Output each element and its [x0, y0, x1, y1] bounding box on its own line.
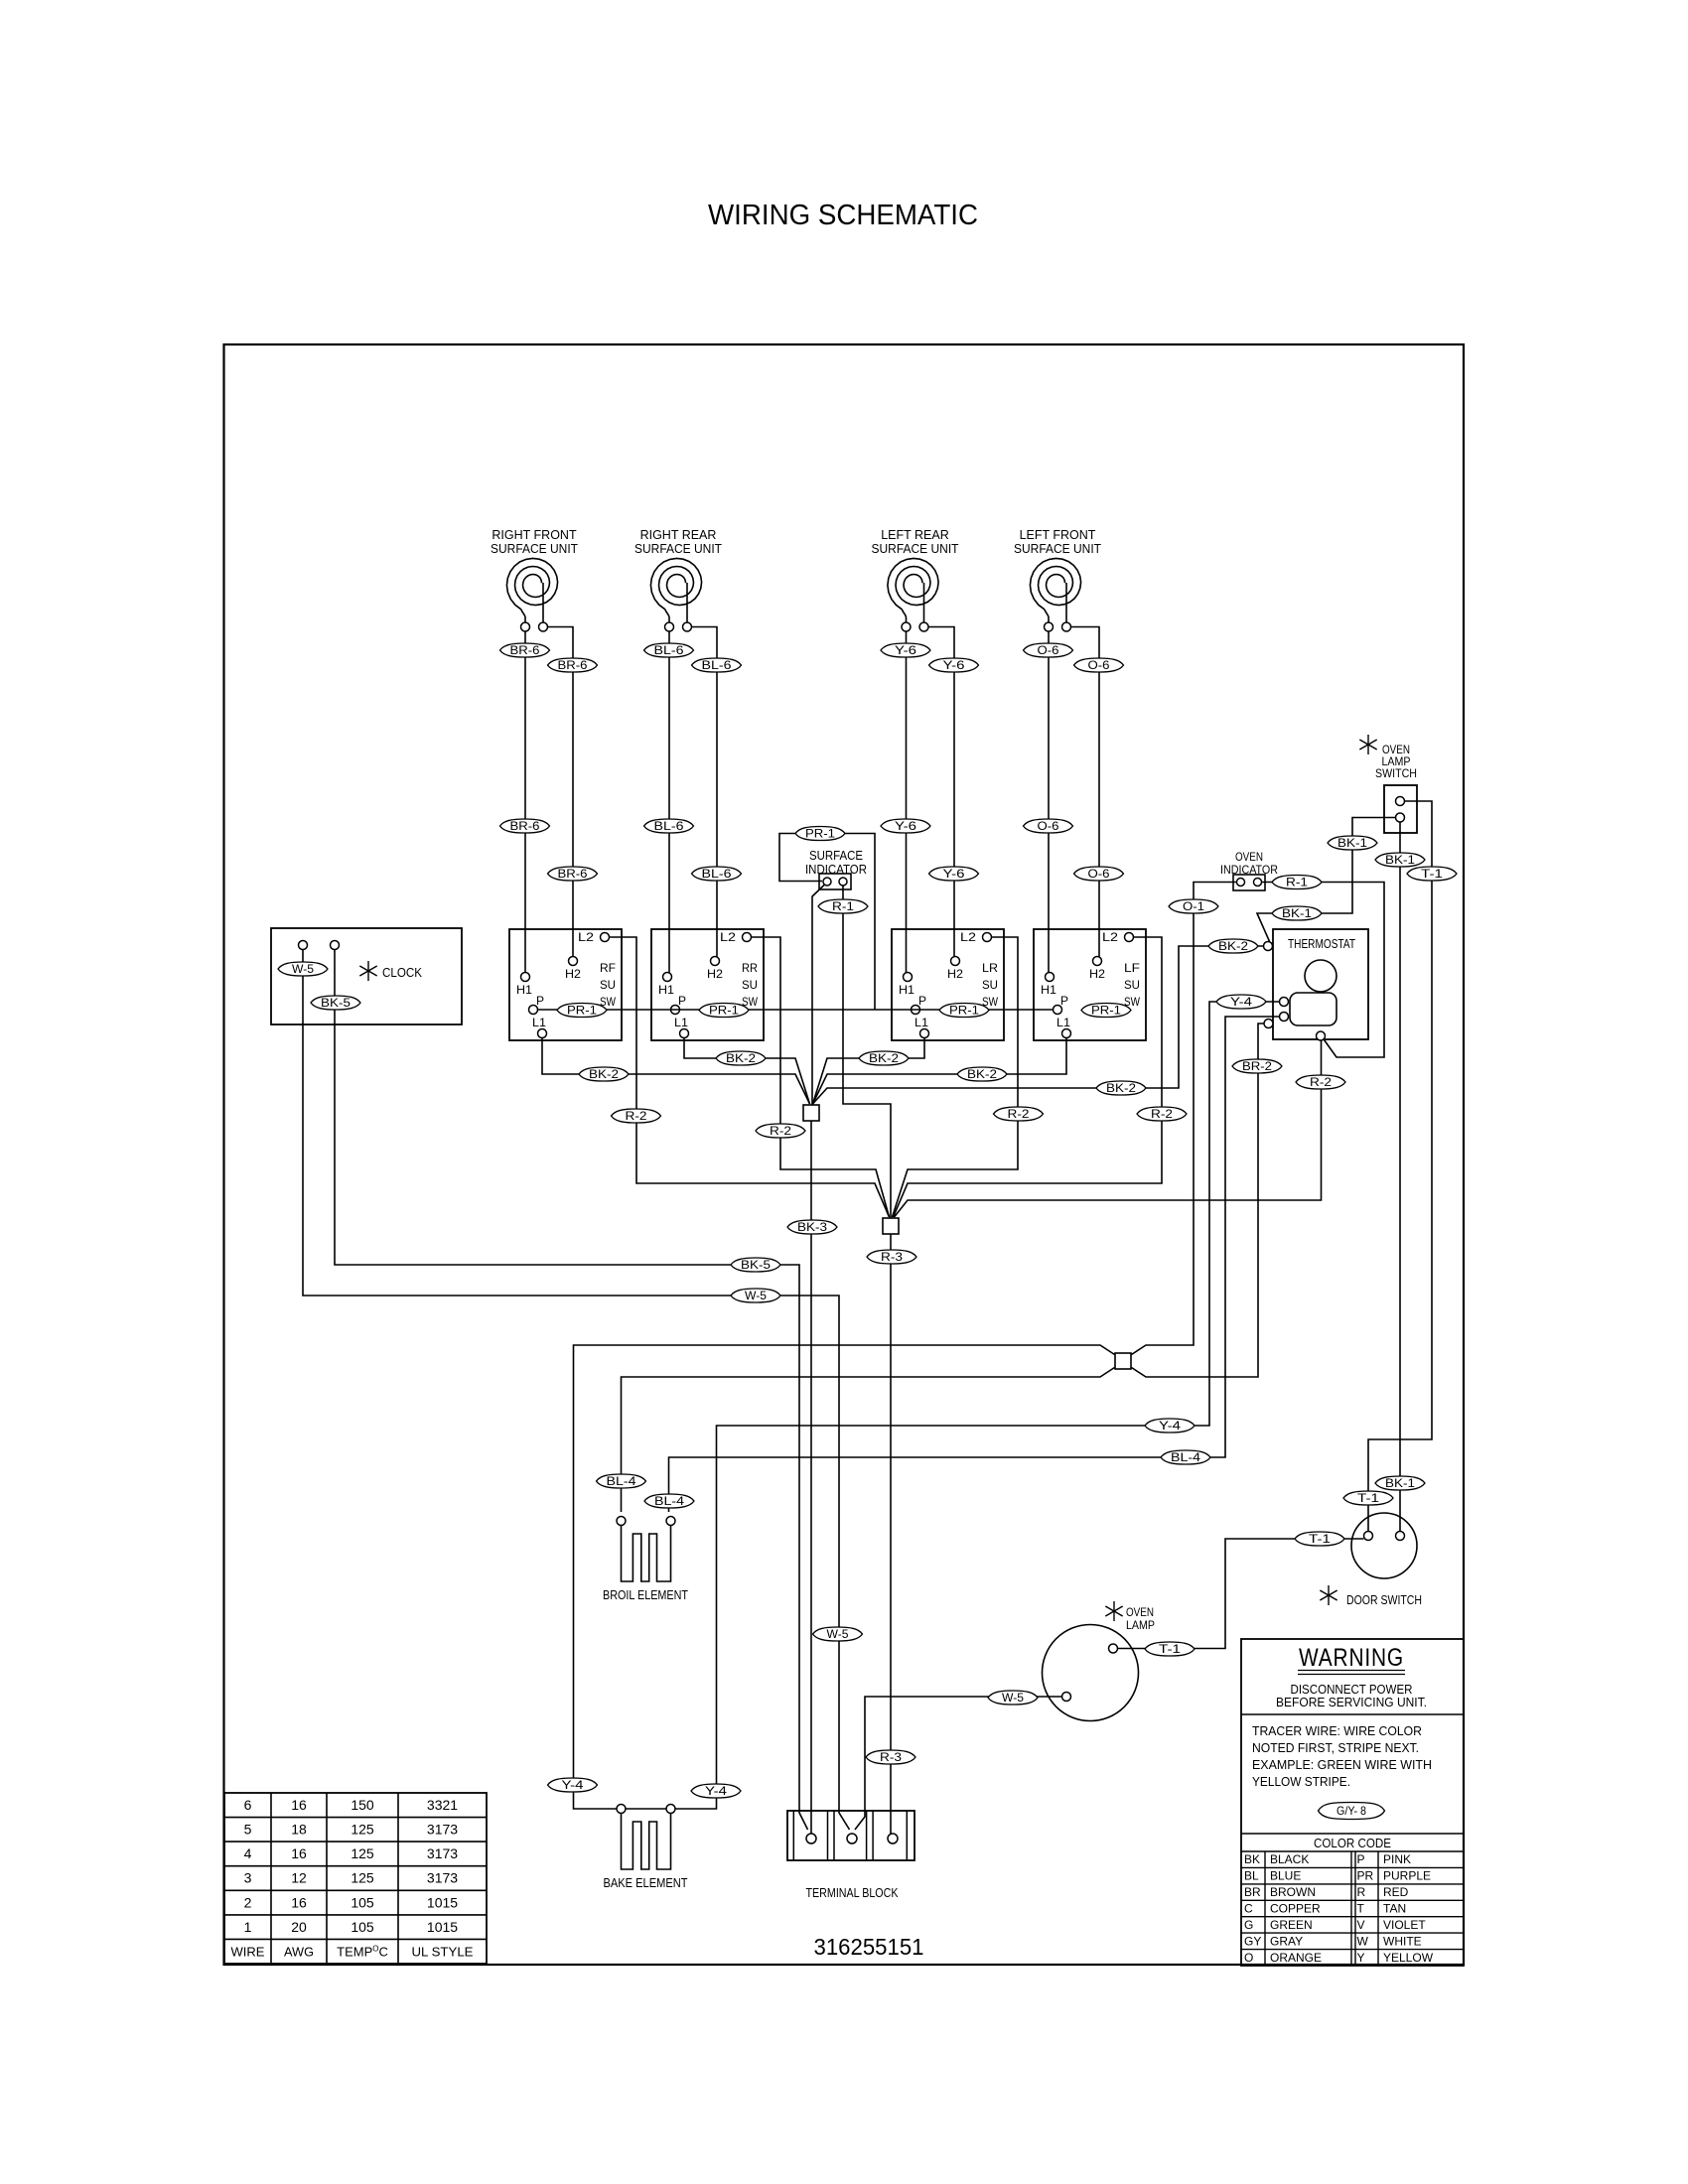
wire table row 4 16 125 3173 — [244, 1845, 459, 1861]
svg-text:12: 12 — [291, 1870, 307, 1886]
bake element terminals — [617, 1805, 675, 1814]
label oval R-2 below thermostat — [1296, 1075, 1345, 1089]
switch box LF SU SW — [1034, 929, 1146, 1040]
svg-text:BEFORE SERVICING UNIT.: BEFORE SERVICING UNIT. — [1276, 1696, 1427, 1709]
wire PR-1 chain linking P terminals of all switch boxes — [538, 1009, 1054, 1011]
label oval BK-2 on RR L1 wire — [716, 1051, 766, 1065]
svg-text:3173: 3173 — [427, 1845, 458, 1861]
svg-text:16: 16 — [291, 1894, 307, 1910]
label oval PR-1 at surface indicator — [795, 827, 845, 841]
svg-text:H1: H1 — [658, 983, 674, 997]
wire BK-3 from junction J1 down to terminal block — [810, 1121, 812, 1834]
oven lamp terminals — [1062, 1644, 1118, 1702]
label oval W-5 at oven lamp — [988, 1691, 1038, 1705]
oven lamp switch box — [1384, 785, 1417, 833]
terminal P of LF — [1054, 1006, 1062, 1015]
svg-text:150: 150 — [351, 1797, 374, 1813]
wire T-1 from oven lamp to door switch — [1118, 1539, 1364, 1649]
asterisk at clock — [359, 961, 376, 981]
label oval R-3 near terminal block — [866, 1750, 915, 1764]
warning box — [1241, 1639, 1464, 1966]
wire Y-6 left lead down to H1 — [906, 631, 908, 973]
color code row BK BLACK / P PINK — [1244, 1852, 1411, 1866]
wire R-2 from LF L2 to junction J2 — [894, 937, 1163, 1217]
clock terminals — [299, 941, 340, 950]
wire BL-4 from thermostat to broil element right terminal — [669, 1017, 1280, 1512]
svg-text:O-6: O-6 — [1038, 645, 1059, 657]
label oval O-6 left upper — [1024, 643, 1073, 657]
svg-text:3321: 3321 — [427, 1797, 458, 1813]
wire BL-4 from bowtie J3 to broil element left terminal — [622, 1368, 1115, 1513]
wire BK-2 from LF L1 to junction J1 — [813, 1038, 1067, 1105]
svg-text:105: 105 — [351, 1894, 374, 1910]
wire T-1 from lamp switch to door switch left terminal — [1368, 801, 1432, 1532]
thermostat body — [1290, 993, 1336, 1025]
svg-text:GRAY: GRAY — [1270, 1934, 1303, 1948]
svg-text:DOOR SWITCH: DOOR SWITCH — [1346, 1593, 1422, 1607]
label oval Y-4 above bake element right — [691, 1784, 741, 1798]
asterisk at oven lamp switch — [1359, 735, 1376, 754]
door switch circle — [1351, 1513, 1417, 1578]
svg-text:BLUE: BLUE — [1270, 1869, 1301, 1883]
label oval O-1 — [1169, 899, 1218, 913]
svg-text:H1: H1 — [899, 983, 914, 997]
wire BL-6 right lead jog down to H2 — [692, 627, 718, 957]
svg-text:BL: BL — [1244, 1869, 1259, 1883]
svg-text:C: C — [1244, 1902, 1253, 1916]
svg-text:L1: L1 — [914, 1016, 928, 1029]
terminal H1 of LR — [904, 973, 913, 982]
svg-text:BK-1: BK-1 — [1385, 1478, 1415, 1490]
svg-text:16: 16 — [291, 1797, 307, 1813]
wire table row 5 18 125 3173 — [244, 1822, 459, 1838]
svg-text:R-3: R-3 — [881, 1252, 903, 1264]
svg-text:BK-2: BK-2 — [869, 1053, 899, 1065]
svg-text:YELLOW: YELLOW — [1383, 1951, 1434, 1965]
svg-text:TEMPOC: TEMPOC — [337, 1944, 388, 1959]
svg-text:1: 1 — [244, 1919, 252, 1935]
label oval R-2 on LR L2 wire — [994, 1107, 1044, 1121]
wire BR-6 left lead down to H1 — [524, 631, 526, 973]
wire PR-1 to surface indicator and down to P chain — [779, 834, 875, 1011]
label oval BK-5 at clock — [311, 996, 360, 1010]
label oval BL-4 on horizontal run — [1161, 1450, 1210, 1464]
svg-text:R-3: R-3 — [880, 1752, 902, 1764]
wire table row 3 12 125 3173 — [244, 1870, 459, 1886]
wire W-5 from oven lamp to terminal block — [855, 1697, 1062, 1830]
svg-text:PR-1: PR-1 — [949, 1006, 979, 1018]
svg-text:INDICATOR: INDICATOR — [805, 863, 867, 877]
surface indicator box — [819, 874, 851, 889]
svg-text:TERMINAL BLOCK: TERMINAL BLOCK — [806, 1885, 899, 1900]
surface indicator label — [805, 849, 867, 877]
svg-text:SU: SU — [1124, 978, 1140, 992]
svg-text:TRACER WIRE: WIRE COLOR: TRACER WIRE: WIRE COLOR — [1252, 1724, 1422, 1738]
wire Y-4 from thermostat to bake element — [626, 1002, 1280, 1809]
wire W-5 from clock down and right to terminal block — [303, 950, 850, 1831]
svg-text:4: 4 — [244, 1845, 252, 1861]
oven lamp label — [1126, 1605, 1155, 1632]
svg-text:R-2: R-2 — [1151, 1109, 1173, 1121]
label oval BR-6 right lower — [548, 867, 598, 881]
label oval BK-2 on LF L1 wire — [957, 1067, 1007, 1081]
svg-text:R-1: R-1 — [1286, 878, 1308, 889]
wire BK-2 from RF L1 to junction J1 — [542, 1038, 810, 1105]
label oval O-6 right lower — [1074, 867, 1124, 881]
svg-text:BR-6: BR-6 — [558, 660, 588, 672]
svg-text:BK: BK — [1244, 1852, 1260, 1866]
svg-text:O-6: O-6 — [1088, 660, 1110, 672]
label oval R-3 below junction J2 — [867, 1250, 916, 1264]
svg-text:6: 6 — [244, 1797, 252, 1813]
svg-text:BROWN: BROWN — [1270, 1885, 1316, 1899]
wire R-3 from junction J2 down to terminal block — [890, 1234, 892, 1834]
wire table row 1 20 105 1015 — [244, 1919, 459, 1935]
svg-text:BK-5: BK-5 — [321, 998, 351, 1010]
door switch terminals — [1364, 1532, 1405, 1541]
svg-text:R-1: R-1 — [832, 901, 854, 913]
svg-text:W: W — [1357, 1934, 1369, 1948]
svg-text:G/Y- 8: G/Y- 8 — [1336, 1804, 1366, 1818]
svg-text:L2: L2 — [720, 930, 736, 944]
wire BL-6 left lead down to H1 — [668, 631, 670, 973]
wire Y-6 right lead jog down to H2 — [928, 627, 954, 957]
svg-text:Y-4: Y-4 — [1230, 997, 1253, 1009]
svg-text:OVEN: OVEN — [1235, 850, 1263, 864]
svg-text:BR: BR — [1244, 1885, 1261, 1899]
svg-text:H2: H2 — [707, 967, 723, 981]
thermostat sensor circle — [1305, 960, 1336, 992]
svg-text:BK-1: BK-1 — [1282, 908, 1312, 920]
terminal L1 of RF — [538, 1029, 547, 1038]
svg-text:RIGHT FRONT: RIGHT FRONT — [492, 528, 577, 542]
terminal H2 of LF — [1093, 957, 1102, 966]
surface unit coil RIGHT FRONT — [491, 528, 578, 631]
wire BK-2 from RR L1 to junction J1 — [684, 1038, 810, 1105]
svg-text:VIOLET: VIOLET — [1383, 1918, 1426, 1932]
svg-text:BR-6: BR-6 — [558, 869, 588, 881]
svg-text:L1: L1 — [532, 1016, 546, 1029]
label oval O-6 right upper — [1074, 658, 1124, 672]
label oval R-2 on RF L2 wire — [612, 1109, 661, 1123]
oven lamp circle — [1043, 1625, 1139, 1721]
svg-text:Y-4: Y-4 — [705, 1786, 728, 1798]
label oval PR-1 in LR box — [939, 1004, 989, 1018]
svg-text:BK-2: BK-2 — [1218, 941, 1248, 953]
terminal P of RR — [671, 1006, 680, 1015]
svg-text:L2: L2 — [1102, 930, 1118, 944]
tracer wire note text — [1252, 1724, 1432, 1789]
svg-text:RIGHT REAR: RIGHT REAR — [640, 528, 717, 542]
svg-text:Y: Y — [1357, 1951, 1365, 1965]
svg-text:PR: PR — [1357, 1869, 1374, 1883]
wire R-1 from surface indicator right terminal to junction J2 — [843, 887, 891, 1219]
label oval Y-6 right upper — [929, 658, 979, 672]
svg-text:O-6: O-6 — [1088, 869, 1110, 881]
wire table row 2 16 105 1015 — [244, 1894, 459, 1910]
label oval R-1 right of oven indicator — [1272, 876, 1322, 889]
surface unit coil RIGHT REAR — [634, 528, 722, 631]
wire O-6 left lead down to H1 — [1048, 631, 1050, 973]
label oval PR-1 in RR box — [699, 1004, 749, 1018]
terminal L2 of RR — [743, 933, 752, 942]
svg-text:R-2: R-2 — [626, 1111, 647, 1123]
terminal L1 of LR — [920, 1029, 929, 1038]
label oval BR-6 right upper — [548, 658, 598, 672]
svg-text:H1: H1 — [516, 983, 532, 997]
wire BK-2 from thermostat to junction J1 — [813, 946, 1264, 1104]
svg-text:UL STYLE: UL STYLE — [412, 1944, 474, 1959]
svg-text:125: 125 — [351, 1822, 374, 1838]
terminal L2 of RF — [601, 933, 610, 942]
terminal H2 of RF — [569, 957, 578, 966]
svg-text:SU: SU — [982, 978, 998, 992]
label oval T-1 left of door switch — [1295, 1532, 1344, 1546]
svg-text:PURPLE: PURPLE — [1383, 1869, 1431, 1883]
svg-text:3173: 3173 — [427, 1870, 458, 1886]
svg-text:W-5: W-5 — [292, 964, 314, 976]
svg-text:TAN: TAN — [1383, 1902, 1406, 1916]
svg-text:1015: 1015 — [427, 1894, 458, 1910]
terminal L1 of RR — [680, 1029, 689, 1038]
svg-text:SURFACE: SURFACE — [809, 849, 863, 863]
svg-text:1015: 1015 — [427, 1919, 458, 1935]
svg-text:GREEN: GREEN — [1270, 1918, 1313, 1932]
svg-text:YELLOW STRIPE.: YELLOW STRIPE. — [1252, 1775, 1350, 1789]
svg-text:P: P — [1357, 1852, 1365, 1866]
svg-text:DISCONNECT POWER: DISCONNECT POWER — [1291, 1683, 1413, 1697]
svg-text:H2: H2 — [947, 967, 963, 981]
svg-text:125: 125 — [351, 1870, 374, 1886]
svg-text:105: 105 — [351, 1919, 374, 1935]
wire R-2 from thermostat bottom to junction J2 — [895, 1040, 1322, 1217]
svg-text:Y-6: Y-6 — [895, 821, 916, 833]
svg-text:2: 2 — [244, 1894, 252, 1910]
color code row GY GRAY / W WHITE — [1244, 1934, 1422, 1948]
svg-text:PINK: PINK — [1383, 1852, 1411, 1866]
svg-text:R-2: R-2 — [1008, 1109, 1030, 1121]
svg-text:T-1: T-1 — [1159, 1644, 1181, 1656]
terminal H1 of LF — [1046, 973, 1055, 982]
oven indicator label — [1220, 850, 1278, 877]
svg-text:W-5: W-5 — [745, 1291, 767, 1302]
label oval R-2 on LF L2 wire — [1137, 1107, 1187, 1121]
svg-text:THERMOSTAT: THERMOSTAT — [1288, 937, 1355, 951]
svg-text:BK-2: BK-2 — [1106, 1083, 1136, 1095]
label oval BL-6 left upper — [644, 643, 694, 657]
svg-text:RF: RF — [600, 961, 616, 975]
svg-text:BR-6: BR-6 — [510, 821, 540, 833]
terminal H1 of RR — [663, 973, 672, 982]
svg-text:BL-4: BL-4 — [1171, 1452, 1201, 1464]
oven indicator terminals — [1237, 879, 1262, 887]
svg-text:BL-6: BL-6 — [702, 660, 732, 672]
svg-text:V: V — [1357, 1918, 1365, 1932]
color code table — [224, 1793, 1464, 1966]
junction J2 node — [883, 1218, 899, 1234]
svg-text:Y-6: Y-6 — [943, 869, 965, 881]
svg-text:SURFACE UNIT: SURFACE UNIT — [872, 542, 959, 556]
svg-text:SURFACE UNIT: SURFACE UNIT — [634, 542, 722, 556]
svg-text:LF: LF — [1124, 961, 1140, 975]
svg-text:ORANGE: ORANGE — [1270, 1951, 1322, 1965]
label oval BK-2 on thermostat wire — [1096, 1081, 1146, 1095]
label oval BK-5 on horizontal run — [731, 1258, 780, 1272]
svg-text:H2: H2 — [1089, 967, 1105, 981]
svg-text:GY: GY — [1244, 1934, 1261, 1948]
warning text disconnect power — [1276, 1683, 1427, 1709]
label oval O-6 left lower — [1024, 819, 1073, 833]
wire R-2 from RR L2 to junction J2 — [752, 937, 890, 1217]
svg-text:SWITCH: SWITCH — [1375, 766, 1417, 780]
svg-text:T-1: T-1 — [1309, 1534, 1331, 1546]
svg-text:BL-6: BL-6 — [654, 821, 684, 833]
wire O-6 right lead jog down to H2 — [1071, 627, 1100, 957]
svg-text:BL-4: BL-4 — [607, 1476, 637, 1488]
oven indicator box — [1233, 875, 1265, 890]
svg-text:L1: L1 — [1056, 1016, 1070, 1029]
svg-text:BK-2: BK-2 — [589, 1069, 619, 1081]
svg-text:P: P — [678, 994, 686, 1008]
wire gauge table — [224, 1793, 924, 1964]
svg-text:R-2: R-2 — [770, 1126, 791, 1138]
label oval BL-6 left lower — [644, 819, 694, 833]
svg-text:125: 125 — [351, 1845, 374, 1861]
switch box RR SU SW — [651, 929, 764, 1040]
clock box — [271, 928, 462, 1024]
svg-text:PR-1: PR-1 — [805, 829, 835, 841]
svg-text:BLACK: BLACK — [1270, 1852, 1309, 1866]
svg-text:5: 5 — [244, 1822, 252, 1838]
wire Y-4 from bowtie J3 to bake element left terminal — [574, 1345, 1115, 1809]
svg-text:Y-6: Y-6 — [943, 660, 965, 672]
svg-text:H2: H2 — [565, 967, 581, 981]
svg-text:SURFACE UNIT: SURFACE UNIT — [1014, 542, 1101, 556]
svg-text:O-6: O-6 — [1038, 821, 1059, 833]
svg-text:COPPER: COPPER — [1270, 1902, 1321, 1916]
svg-text:BK-2: BK-2 — [726, 1053, 756, 1065]
svg-text:RED: RED — [1383, 1885, 1409, 1899]
label oval Y-6 right lower — [929, 867, 979, 881]
label oval BR-6 left lower — [500, 819, 550, 833]
svg-text:18: 18 — [291, 1822, 307, 1838]
thermostat box — [1273, 929, 1368, 1039]
label oval BR-6 left upper — [500, 643, 550, 657]
label oval G/Y- 8 example — [1319, 1803, 1385, 1820]
terminal L2 of LF — [1125, 933, 1134, 942]
svg-text:16: 16 — [291, 1845, 307, 1861]
oven lamp switch terminals — [1396, 797, 1405, 823]
svg-text:T: T — [1357, 1902, 1365, 1916]
svg-text:R-2: R-2 — [1310, 1077, 1332, 1089]
surface unit coil LEFT FRONT — [1014, 528, 1101, 631]
asterisk at door switch — [1320, 1585, 1336, 1605]
svg-text:OVEN: OVEN — [1126, 1605, 1154, 1619]
surface indicator terminals — [823, 878, 847, 886]
wire table header row WIRE AWG TEMP C UL STYLE — [231, 1944, 474, 1959]
label oval BK-2 on LR L1 wire — [859, 1051, 909, 1065]
svg-text:BR-2: BR-2 — [1242, 1061, 1272, 1073]
svg-text:LEFT REAR: LEFT REAR — [881, 528, 949, 542]
svg-text:SU: SU — [742, 978, 758, 992]
svg-text:BK-3: BK-3 — [797, 1222, 827, 1234]
svg-text:T-1: T-1 — [1357, 1493, 1379, 1505]
label oval BK-3 — [787, 1220, 837, 1234]
svg-text:R: R — [1357, 1885, 1366, 1899]
svg-text:BROIL ELEMENT: BROIL ELEMENT — [603, 1587, 688, 1602]
color code header divider — [1241, 1833, 1464, 1835]
wire BK-1 from lamp switch down to door switch right terminal — [1399, 822, 1401, 1532]
label oval BK-1 below lamp switch — [1375, 853, 1425, 867]
terminal H2 of LR — [951, 957, 960, 966]
svg-text:WIRING SCHEMATIC: WIRING SCHEMATIC — [708, 200, 978, 231]
junction J3 node — [1115, 1353, 1131, 1369]
wire table row 6 16 150 3321 — [244, 1797, 459, 1813]
svg-text:AWG: AWG — [284, 1944, 314, 1959]
label oval BL-4 above broil right terminal — [644, 1494, 694, 1508]
wire BK-5 from clock down and right to terminal block — [335, 950, 808, 1831]
svg-text:P: P — [536, 994, 544, 1008]
terminal block terminals — [806, 1834, 898, 1843]
broil element — [622, 1526, 671, 1582]
svg-text:BK-1: BK-1 — [1385, 855, 1415, 867]
svg-text:P: P — [918, 994, 926, 1008]
bake element — [622, 1814, 671, 1870]
label oval Y-4 on horizontal run — [1145, 1419, 1195, 1433]
svg-text:PR-1: PR-1 — [709, 1006, 739, 1018]
label oval W-5 at clock — [278, 962, 328, 976]
label oval BK-2 on RF L1 wire — [579, 1067, 629, 1081]
svg-text:O: O — [1244, 1951, 1253, 1965]
color code row BR BROWN / R RED — [1244, 1885, 1409, 1899]
label oval BR-2 — [1232, 1059, 1282, 1073]
label oval PR-1 in LF box — [1081, 1004, 1131, 1018]
svg-text:SU: SU — [600, 978, 616, 992]
wire BK-2 from LR L1 to junction J1 — [813, 1038, 925, 1105]
svg-text:RR: RR — [742, 961, 758, 975]
label oval R-1 below surface indicator — [818, 899, 868, 913]
switch box LR SU SW — [892, 929, 1004, 1040]
wire BK-1 from lamp switch to thermostat upper terminal — [1257, 818, 1396, 943]
color code row G GREEN / V VIOLET — [1244, 1918, 1426, 1932]
svg-text:T-1: T-1 — [1421, 869, 1443, 881]
svg-text:WHITE: WHITE — [1383, 1934, 1422, 1948]
svg-text:316255151: 316255151 — [814, 1934, 924, 1960]
svg-text:BL-4: BL-4 — [654, 1496, 685, 1508]
label oval T-1 right of oven lamp — [1145, 1642, 1195, 1656]
svg-text:W-5: W-5 — [827, 1629, 849, 1641]
warning box divider — [1241, 1713, 1464, 1715]
label oval BK-1 above door switch — [1375, 1476, 1425, 1490]
label oval BL-6 right upper — [692, 658, 742, 672]
svg-text:W-5: W-5 — [1002, 1693, 1024, 1705]
svg-text:BL-6: BL-6 — [702, 869, 732, 881]
asterisk at oven lamp — [1105, 1601, 1122, 1621]
svg-text:BR-6: BR-6 — [510, 645, 540, 657]
label oval W-5 on drop to terminal block — [813, 1627, 863, 1641]
terminal H1 of RF — [521, 973, 530, 982]
svg-text:L1: L1 — [674, 1016, 688, 1029]
svg-text:CLOCK: CLOCK — [382, 966, 423, 980]
wire R-2 from RF L2 to junction J2 — [610, 937, 890, 1217]
terminal P of LR — [912, 1006, 920, 1015]
color code row O ORANGE / Y YELLOW — [1244, 1951, 1434, 1965]
svg-text:G: G — [1244, 1918, 1253, 1932]
terminal L1 of LF — [1062, 1029, 1071, 1038]
svg-text:BK-1: BK-1 — [1337, 838, 1367, 850]
label oval Y-4 above bake element left — [548, 1778, 598, 1792]
svg-text:PR-1: PR-1 — [1091, 1006, 1121, 1018]
